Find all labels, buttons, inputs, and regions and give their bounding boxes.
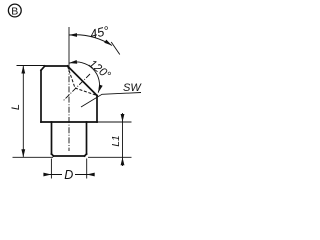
L1 extension line top <box>98 121 132 123</box>
top-left chamfer <box>41 66 45 70</box>
L1 arrow top (outside pointing down) <box>121 114 125 122</box>
shank left edge <box>51 122 53 154</box>
L1 extension line bottom <box>88 156 132 158</box>
L arrow bottom <box>21 149 25 157</box>
svg-text:SW: SW <box>123 82 142 94</box>
45deg arc left arrow <box>69 33 77 37</box>
45deg dimension arc <box>69 35 112 46</box>
D dimension line right part <box>75 174 94 176</box>
svg-text:D: D <box>64 168 73 182</box>
shank bottom <box>54 155 85 157</box>
shank bottom chamfer left <box>52 154 54 156</box>
45deg extension line above apex <box>68 27 70 66</box>
45deg extension tick <box>111 42 120 55</box>
centerline <box>68 66 70 151</box>
right edge <box>96 96 98 123</box>
left edge <box>40 70 42 122</box>
120deg arc top arrow <box>69 60 77 64</box>
120deg dimension arc <box>69 62 99 93</box>
top edge <box>45 65 68 67</box>
120deg arc bottom arrow <box>98 85 102 93</box>
D extension line right <box>86 159 88 179</box>
L extension line top <box>17 65 45 67</box>
hidden cone left side <box>68 66 76 88</box>
hidden cone right side <box>75 88 97 96</box>
D dimension line left part <box>44 174 62 176</box>
svg-text:B: B <box>11 5 18 17</box>
form label B circle <box>8 4 21 17</box>
SW leader <box>81 93 141 108</box>
cone axis dash-dot <box>63 74 90 101</box>
shank right edge <box>86 122 88 154</box>
L1 arrow bottom (outside pointing up) <box>121 157 125 165</box>
svg-text:L1: L1 <box>111 135 122 146</box>
body bottom <box>41 121 97 123</box>
45deg face <box>68 66 98 96</box>
D arrow left (outside pointing right) <box>43 173 51 177</box>
L1 dimension line <box>122 113 124 166</box>
shank bottom chamfer right <box>85 154 87 156</box>
svg-text:L: L <box>10 104 22 110</box>
L dimension line <box>22 66 24 158</box>
L extension line bottom <box>13 156 54 158</box>
D extension line left <box>50 159 52 179</box>
L arrow top <box>21 66 25 74</box>
D arrow right (outside pointing left) <box>87 173 95 177</box>
45deg arc right arrow <box>104 40 112 46</box>
part outline <box>41 66 97 156</box>
